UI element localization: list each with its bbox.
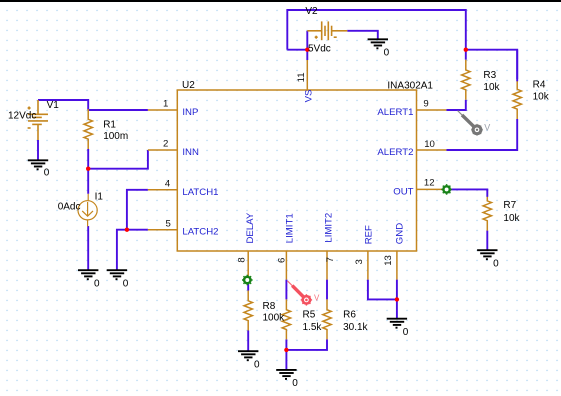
svg-text:0: 0 <box>94 278 100 289</box>
svg-text:3: 3 <box>354 259 365 264</box>
svg-text:1: 1 <box>163 99 168 110</box>
svg-text:R6: R6 <box>343 310 356 321</box>
svg-text:0: 0 <box>384 47 390 58</box>
svg-text:DELAY: DELAY <box>245 212 256 243</box>
svg-text:0: 0 <box>123 278 129 289</box>
svg-text:5: 5 <box>166 218 171 229</box>
svg-text:1.5k: 1.5k <box>303 322 323 333</box>
svg-text:12: 12 <box>424 178 435 189</box>
svg-text:4: 4 <box>165 178 171 189</box>
svg-text:10k: 10k <box>503 213 520 224</box>
svg-text:LIMIT2: LIMIT2 <box>324 213 335 243</box>
svg-text:R3: R3 <box>483 70 496 81</box>
svg-text:6: 6 <box>277 258 288 263</box>
svg-text:GND: GND <box>395 223 406 244</box>
svg-text:OUT: OUT <box>393 186 413 197</box>
svg-text:I1: I1 <box>95 192 104 203</box>
svg-text:9: 9 <box>423 99 428 110</box>
svg-text:10: 10 <box>424 139 435 150</box>
svg-text:V: V <box>314 294 320 303</box>
svg-text:0: 0 <box>403 327 409 338</box>
svg-text:V: V <box>484 122 490 132</box>
svg-text:100m: 100m <box>103 131 128 142</box>
svg-text:2: 2 <box>163 139 168 150</box>
svg-text:12Vdc: 12Vdc <box>8 110 36 121</box>
svg-text:R1: R1 <box>103 120 116 131</box>
svg-text:30.1k: 30.1k <box>343 322 368 333</box>
svg-text:100k: 100k <box>263 313 286 324</box>
svg-text:11: 11 <box>296 72 307 82</box>
svg-text:R4: R4 <box>533 79 546 90</box>
svg-text:REF: REF <box>364 225 375 244</box>
svg-text:0: 0 <box>292 378 298 389</box>
svg-text:0Adc: 0Adc <box>58 202 81 213</box>
svg-text:0: 0 <box>44 168 50 179</box>
svg-text:0: 0 <box>493 258 499 269</box>
svg-text:7: 7 <box>325 257 336 262</box>
svg-text:INA302A1: INA302A1 <box>387 81 433 92</box>
svg-text:INP: INP <box>182 107 198 118</box>
svg-text:V1: V1 <box>47 100 60 111</box>
svg-text:INN: INN <box>182 147 199 158</box>
svg-text:ALERT1: ALERT1 <box>377 107 413 118</box>
svg-text:0: 0 <box>254 359 260 370</box>
svg-text:LATCH1: LATCH1 <box>182 187 218 198</box>
svg-text:LIMIT1: LIMIT1 <box>284 213 295 243</box>
svg-text:R7: R7 <box>503 200 516 211</box>
svg-text:V2: V2 <box>305 6 318 17</box>
svg-text:LATCH2: LATCH2 <box>182 227 218 238</box>
svg-text:R5: R5 <box>303 310 316 321</box>
svg-text:8: 8 <box>237 257 248 262</box>
svg-text:5Vdc: 5Vdc <box>308 44 331 55</box>
svg-text:R8: R8 <box>263 301 276 312</box>
svg-text:10k: 10k <box>483 82 500 93</box>
svg-text:VS: VS <box>303 90 314 103</box>
svg-text:10k: 10k <box>533 91 550 102</box>
svg-text:13: 13 <box>383 255 394 266</box>
svg-text:ALERT2: ALERT2 <box>377 147 413 158</box>
svg-text:U2: U2 <box>182 80 195 91</box>
